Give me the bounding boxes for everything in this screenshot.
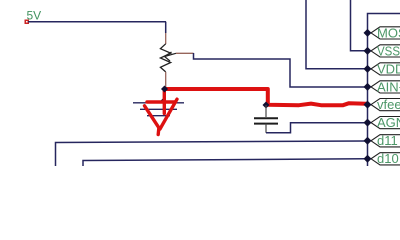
wire d11 xyxy=(56,141,366,166)
capacitor C1 bottom pin xyxy=(265,124,267,133)
svg-text:VSS: VSS xyxy=(377,44,400,59)
junction dot pot bottom xyxy=(161,86,168,93)
svg-text:VDD: VDD xyxy=(377,62,400,77)
junction dot capacitor top xyxy=(263,102,270,109)
pin AGND xyxy=(364,115,400,130)
wire d10 xyxy=(83,159,365,166)
wire VSS from top xyxy=(351,0,366,51)
potentiometer RV1 wiper pin xyxy=(176,52,194,54)
junction dot at ground bar xyxy=(160,98,166,104)
wire 5V down to pot xyxy=(165,22,167,33)
potentiometer RV1 zigzag body xyxy=(160,44,170,72)
potentiometer RV1 top pin xyxy=(165,33,167,44)
pin MOSI xyxy=(364,26,400,41)
potentiometer RV1 wiper arrow xyxy=(165,52,177,61)
capacitor C1 plates xyxy=(254,117,278,119)
pin AIN xyxy=(364,80,400,95)
potentiometer RV1 bottom pin xyxy=(165,72,167,89)
svg-text:AGND: AGND xyxy=(377,115,400,130)
svg-text:vfeed: vfeed xyxy=(377,97,400,112)
pin vfeed xyxy=(364,97,400,112)
pin d11 xyxy=(364,133,400,148)
capacitor C1 top pin xyxy=(265,105,267,117)
pin VSS xyxy=(364,44,400,59)
ground symbol (highlighted red) xyxy=(145,89,178,135)
svg-text:5V: 5V xyxy=(27,8,42,22)
power terminal 5V xyxy=(25,20,30,25)
wire capacitor to AGND xyxy=(266,123,365,133)
pin VDD xyxy=(364,62,400,77)
wire 5V horizontal xyxy=(28,21,166,23)
wire wiper to AIN xyxy=(194,53,366,87)
svg-text:MOSI: MOSI xyxy=(377,26,400,41)
subcircuit border xyxy=(368,14,400,167)
earth ground bars (thin) xyxy=(133,103,184,116)
pin d10 xyxy=(364,151,400,166)
red net wire main run xyxy=(165,89,367,105)
wire VDD from top xyxy=(306,0,365,69)
svg-text:AIN+: AIN+ xyxy=(377,80,400,95)
svg-text:d10: d10 xyxy=(377,151,399,166)
svg-text:d11: d11 xyxy=(377,133,398,148)
